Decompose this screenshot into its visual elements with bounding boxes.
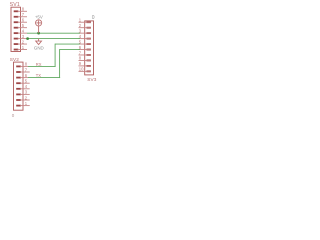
svg-text:GND: GND bbox=[34, 45, 44, 50]
svg-text:TX: TX bbox=[36, 73, 42, 78]
svg-text:SV2: SV2 bbox=[10, 57, 20, 62]
svg-text:SV3: SV3 bbox=[87, 77, 97, 82]
svg-text:0: 0 bbox=[92, 15, 95, 21]
svg-text:RX: RX bbox=[36, 62, 42, 67]
svg-text:10: 10 bbox=[79, 67, 84, 72]
svg-text:+5V: +5V bbox=[35, 14, 43, 19]
